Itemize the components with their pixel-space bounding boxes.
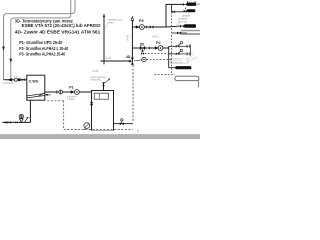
manifold vertical xyxy=(190,45,192,56)
svg-text:d=25: d=25 xyxy=(106,57,112,60)
tick near dashed corner xyxy=(137,129,139,132)
cold water drop from tank xyxy=(29,100,31,122)
svg-text:d=28: d=28 xyxy=(126,35,130,41)
riser down x=168.7 xyxy=(168,46,170,67)
radiator 2 bar xyxy=(187,9,195,12)
dashed from 3D valve xyxy=(145,53,172,55)
gray caption box podlogowka xyxy=(170,58,187,63)
P2 row pipe xyxy=(132,47,168,49)
leader arrow on outer path xyxy=(2,47,5,51)
svg-text:podlogowka: podlogowka xyxy=(171,62,183,64)
motor valve 2 xyxy=(176,53,178,56)
ball valve xyxy=(59,90,63,94)
radiator 4 gray bars xyxy=(181,30,200,32)
boiler panel xyxy=(94,93,108,99)
dashed control line vertical right xyxy=(171,12,173,75)
row2 radiator valve xyxy=(184,10,186,13)
svg-text:3D: 3D xyxy=(140,43,145,47)
pump P3 xyxy=(140,25,145,30)
svg-text:P3- Grundfos ALPHA2 25-40: P3- Grundfos ALPHA2 25-40 xyxy=(19,52,66,57)
small bowtie xyxy=(15,121,16,123)
svg-text:cyrkulacja: cyrkulacja xyxy=(2,82,13,85)
svg-text:pietro: pietro xyxy=(108,21,115,25)
coil xyxy=(27,93,45,98)
radiator row3 valve xyxy=(180,25,182,28)
manifold ticks row2 xyxy=(187,52,189,55)
radiator row1 valve xyxy=(183,3,185,6)
pump P1 xyxy=(75,90,80,95)
row2 stub and pipe xyxy=(171,4,173,11)
dashed to hollow radiator xyxy=(155,74,175,76)
svg-text:lazienka: lazienka xyxy=(178,20,188,23)
arrow on DHW pipe xyxy=(8,78,12,82)
valve on feed xyxy=(8,121,10,124)
valve mark on boiler left edge xyxy=(90,102,93,105)
radiator 1 bar xyxy=(187,3,196,6)
annotation gray text near riser A xyxy=(108,18,123,25)
coil return stub with arrow xyxy=(45,94,51,96)
dashed drop from 4D xyxy=(132,65,134,122)
tick on P2 row xyxy=(148,47,150,50)
gray text right of tank xyxy=(67,96,77,102)
motor valve 1 xyxy=(176,45,178,48)
P3 check valve xyxy=(136,25,140,29)
svg-text:z kotla: z kotla xyxy=(67,98,75,101)
row3 pipe to radiator 3 xyxy=(166,25,180,28)
bowtie on DHW pipe xyxy=(22,78,24,81)
pump P2 xyxy=(158,46,163,51)
P3 row pipe xyxy=(132,26,166,28)
svg-text:P3: P3 xyxy=(139,19,144,23)
boiler top pipe xyxy=(103,83,105,91)
towel rail pipe xyxy=(169,67,176,69)
P2 check valve xyxy=(155,46,158,49)
svg-text:P1- Grundfos UPS 25-40: P1- Grundfos UPS 25-40 xyxy=(19,40,63,45)
row2 valve near riser xyxy=(172,10,174,13)
svg-text:4D- Zawór 4D ESBE VRG141: 4D- Zawór 4D ESBE VRG141 ATM 561 xyxy=(15,30,101,35)
gray text above boiler xyxy=(91,76,107,82)
dashed from sensor xyxy=(146,59,171,61)
svg-text:C.WU: C.WU xyxy=(29,80,39,84)
floor valve row 1 xyxy=(169,45,176,47)
heating riser x=132.4 xyxy=(131,20,133,58)
floor band xyxy=(0,135,200,139)
svg-text:d=28: d=28 xyxy=(93,70,99,73)
boiler body xyxy=(92,91,114,131)
riser to roof x=166 xyxy=(166,4,183,27)
4-way valve 4D xyxy=(131,58,133,65)
P3 bowtie valve xyxy=(150,26,152,29)
safety valve on boiler pipe xyxy=(102,82,105,84)
3-way valve 3D xyxy=(140,46,143,50)
manifold ticks row1 xyxy=(187,45,189,48)
cold water feed pipe xyxy=(2,121,30,123)
C.W.U tank xyxy=(27,75,45,100)
open arrowhead top of riser xyxy=(131,17,134,21)
DHW pipe left xyxy=(4,79,27,81)
tick xyxy=(146,26,148,29)
svg-text:P1: P1 xyxy=(69,86,74,90)
pipe: horizontal to 4D valve xyxy=(100,60,129,62)
gauge circle with hatch xyxy=(19,114,23,118)
svg-text:WC3: WC3 xyxy=(153,35,160,39)
small valve under 3D xyxy=(141,52,143,55)
pipe boiler to coil (P1 row) xyxy=(45,91,92,93)
dashed enclosure from tank xyxy=(47,100,64,102)
svg-text:P2- Grundfos ALPHA2 L 25-40: P2- Grundfos ALPHA2 L 25-40 xyxy=(19,46,69,51)
tick xyxy=(56,90,58,93)
legend text block xyxy=(15,18,102,56)
svg-text:P2: P2 xyxy=(156,41,161,45)
arrow left end xyxy=(3,121,7,123)
pipe: supply riser A xyxy=(103,15,105,65)
svg-text:dwufunkc.: dwufunkc. xyxy=(91,79,103,82)
funnel under gauge xyxy=(19,119,23,122)
row4 pipe xyxy=(172,32,187,34)
boiler return pipe xyxy=(114,123,134,125)
circulation pump circles xyxy=(14,78,17,81)
svg-text:c.w.: c.w. xyxy=(14,75,18,78)
temp sensor circle xyxy=(134,60,142,61)
towel rail bar xyxy=(175,66,191,69)
svg-text:4D: 4D xyxy=(126,55,131,59)
drain diagonal xyxy=(25,118,28,122)
callout outer rounded path xyxy=(4,0,76,80)
motor valve on return xyxy=(120,122,122,125)
svg-text:ESBE VTA 572 (20-43stC) lub A: ESBE VTA 572 (20-43stC) lub AFRISO xyxy=(22,23,102,28)
radiator 3 bar xyxy=(184,24,196,27)
drain circle xyxy=(84,123,90,129)
floor valve row 2 xyxy=(169,53,176,55)
callout inner rounded path xyxy=(11,0,71,79)
hollow radiator bar bottom right xyxy=(175,76,199,81)
right top gray annotation xyxy=(178,18,188,24)
leader arrow on inner path xyxy=(9,59,12,63)
row4 valve xyxy=(177,32,179,35)
P1 check valve xyxy=(71,90,75,94)
